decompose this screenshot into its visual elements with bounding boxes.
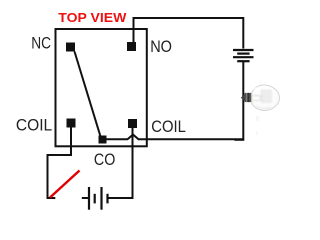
svg-text:COIL: COIL	[151, 118, 186, 136]
switch S1 open blade	[50, 171, 80, 198]
battery B2 left stub	[82, 197, 88, 199]
battery B1 plate short bottom	[237, 60, 249, 62]
terminal NO	[127, 42, 136, 51]
wire COIL left terminal down to switch S1	[48, 128, 72, 199]
wire CO to lamp with hop over coil wire	[106, 135, 243, 140]
lamp screw base	[245, 93, 252, 102]
wire join nub at lamp corner	[234, 140, 244, 141]
terminal NC	[66, 43, 75, 52]
relay contact arm NC to CO	[75, 52, 101, 137]
terminal COIL left	[67, 119, 76, 128]
lamp base tip	[241, 94, 245, 102]
terminal COIL right	[128, 119, 137, 128]
lamp faint ghost marks below	[256, 116, 259, 121]
wire NO terminal up and right to battery B1	[134, 18, 244, 49]
terminal CO	[99, 136, 107, 144]
wire battery B1 down to lamp and CO node	[242, 61, 244, 140]
battery B2 plate short left	[94, 194, 96, 204]
svg-text:COIL: COIL	[16, 117, 52, 135]
svg-text:CO: CO	[94, 151, 116, 169]
battery B1 plate long bottom	[233, 56, 254, 58]
battery B2 plate long right	[100, 187, 102, 210]
svg-text:TOP VIEW: TOP VIEW	[58, 10, 127, 25]
battery B2 plate long left	[88, 187, 90, 210]
battery B2 plate short right	[106, 194, 108, 204]
svg-text:NO: NO	[150, 38, 172, 56]
battery B1 plate short	[237, 52, 249, 54]
svg-text:NC: NC	[31, 35, 51, 53]
wire coil right terminal down through hop to battery B2	[109, 128, 133, 199]
relay K1 body	[56, 29, 147, 146]
battery B1 plate long top	[233, 49, 254, 51]
lamp glass envelope	[252, 85, 280, 111]
lamp glass inner shading	[252, 87, 272, 108]
